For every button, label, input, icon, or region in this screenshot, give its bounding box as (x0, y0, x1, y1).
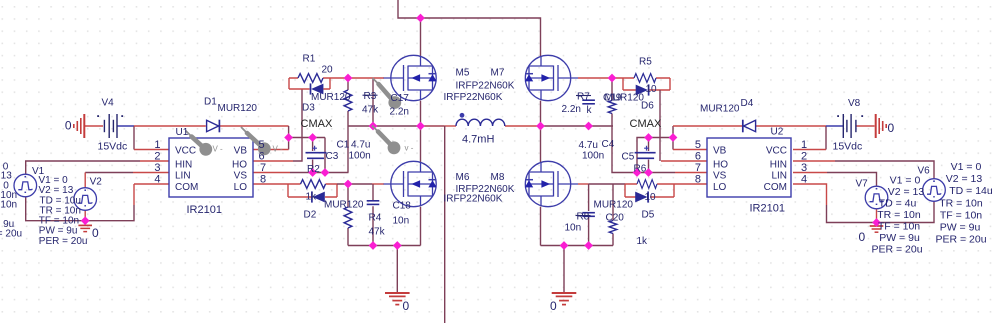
wire node to U1 VCC (133, 126, 135, 150)
node VB left (284, 133, 293, 142)
node bottom ground right (560, 241, 569, 250)
resistor R2 (301, 180, 326, 189)
wire VCC drop right (825, 126, 827, 150)
svg-text:M5: M5 (456, 68, 470, 79)
svg-text:V -: V - (213, 145, 224, 154)
node C5 top (644, 133, 653, 142)
wire R5 D6 bracket right (669, 78, 671, 90)
wire HO chain right (659, 90, 661, 161)
capacitor C3 (306, 146, 327, 159)
wire R1 D3 bracket left (288, 78, 290, 89)
wire U1 pin2 stub (140, 160, 169, 162)
svg-text:4.7u: 4.7u (351, 140, 370, 151)
node rail C17 (369, 122, 378, 131)
node bottom C18 (369, 241, 378, 250)
svg-text:HIN: HIN (770, 160, 787, 171)
wire U2 pin2 stub (793, 160, 835, 162)
op-amp U1 IR2101 box (169, 138, 253, 197)
svg-text:C20: C20 (606, 213, 625, 224)
svg-text:HO: HO (232, 160, 247, 171)
node rail C19 (584, 122, 593, 131)
wire R8 stubs (625, 183, 674, 185)
svg-text:CMAX: CMAX (630, 118, 662, 130)
svg-text:CMAX: CMAX (301, 118, 333, 130)
node VS C3 (308, 168, 317, 177)
svg-text:5: 5 (259, 139, 265, 151)
wire M6 gate row red (372, 183, 384, 185)
svg-text:TR = 10n: TR = 10n (939, 198, 983, 210)
wire right bridge ground drop (563, 246, 565, 293)
svg-text:7: 7 (695, 162, 701, 174)
svg-text:D3: D3 (302, 103, 315, 114)
svg-text:20: 20 (322, 65, 334, 76)
wire R low right chain (612, 184, 614, 246)
ground 0 right of V8 (876, 114, 887, 138)
svg-text:D1: D1 (204, 97, 217, 108)
wire M5 source to rail (420, 101, 422, 126)
node VS corner (321, 168, 330, 177)
svg-text:0: 0 (888, 121, 895, 135)
svg-text:VS: VS (713, 171, 727, 182)
svg-text:U2: U2 (771, 127, 784, 138)
probe V- at mid rail (372, 126, 414, 155)
resistor R1 (298, 74, 323, 83)
svg-text:PW = 9u: PW = 9u (940, 222, 981, 234)
svg-text:0: 0 (550, 299, 557, 313)
node rail M5 (416, 122, 425, 131)
svg-text:MUR120: MUR120 (218, 103, 258, 114)
svg-text:0: 0 (403, 299, 410, 313)
svg-text:1k: 1k (637, 236, 649, 247)
wire U1 pin1 stub (134, 149, 169, 151)
probe V- at U1 VB (241, 127, 283, 155)
wire R5 stubs (623, 77, 670, 79)
svg-text:V1 = 0: V1 = 0 (951, 161, 982, 173)
wire mid rail left (349, 125, 421, 127)
wire R1 stubs (289, 77, 330, 79)
wire C5 top stub (648, 138, 650, 152)
svg-text:10: 10 (645, 192, 657, 203)
svg-text:0: 0 (65, 119, 72, 133)
svg-text:V1 = 0: V1 = 0 (890, 175, 921, 187)
svg-text:= 20u: = 20u (0, 229, 22, 240)
svg-text:MUR120: MUR120 (594, 200, 634, 211)
wire load tap to inductor (445, 125, 456, 127)
svg-text:IRFP22N60K: IRFP22N60K (444, 194, 503, 205)
wire VB drop (288, 126, 290, 150)
diode D5 MUR120 (635, 191, 648, 202)
resistor R7 (608, 101, 616, 114)
wire R8 D5 bracket left (624, 184, 626, 197)
wire R1 D3 bracket right (329, 78, 331, 89)
op-amp U2 IR2101 box (707, 138, 791, 197)
svg-text:R2: R2 (307, 164, 320, 175)
ground 0 right bridge (552, 293, 577, 305)
wire bottom rail right (541, 245, 614, 247)
wire V6 bottom (877, 201, 935, 222)
svg-text:PW = 9u: PW = 9u (39, 226, 78, 237)
svg-text:LIN: LIN (771, 171, 787, 182)
node V7 ground (872, 218, 881, 227)
svg-text:TD = 14u: TD = 14u (949, 185, 993, 197)
wire M6 source (420, 207, 422, 246)
svg-text:0: 0 (859, 230, 866, 244)
svg-text:10n: 10n (393, 216, 410, 227)
wire HIN left run (26, 161, 140, 174)
pulse source V1 (14, 174, 37, 197)
left edge cut parameter column (0, 162, 22, 240)
resistor R8 (637, 180, 657, 189)
wire U2 pin7 stub (675, 172, 707, 174)
inductor 4.7mH (456, 113, 505, 126)
wire VS row right (637, 172, 675, 174)
svg-text:V -: V - (273, 145, 284, 154)
svg-text:U1: U1 (176, 127, 189, 138)
wire U2 pin8 stub (674, 183, 707, 185)
svg-text:2.2n: 2.2n (562, 104, 581, 115)
svg-text:R3: R3 (364, 91, 377, 102)
svg-text:8: 8 (260, 174, 266, 186)
svg-text:VCC: VCC (175, 146, 196, 157)
U2 pin names (713, 146, 787, 194)
svg-text:M6: M6 (456, 172, 470, 183)
wire V8 to node (826, 125, 844, 127)
wire U2 pin6 stub (661, 160, 707, 162)
svg-text:100n: 100n (349, 151, 371, 162)
svg-text:IRFP22N60K: IRFP22N60K (444, 92, 503, 103)
svg-text:PW = 9u: PW = 9u (879, 232, 920, 244)
wire V4 ground stub (85, 125, 103, 127)
svg-text:C3: C3 (326, 151, 339, 162)
svg-text:1: 1 (154, 139, 160, 151)
label R7 (576, 92, 591, 103)
wire M8 drain (540, 126, 542, 162)
capacitor C18 10n (367, 201, 380, 205)
wire R4 chain (347, 184, 349, 246)
svg-text:TD = 4u: TD = 4u (879, 198, 917, 210)
svg-text:C1: C1 (337, 140, 350, 151)
wire R2 stubs (288, 183, 337, 185)
U2 pin numbers right (801, 139, 807, 186)
wire C18 chain (372, 184, 374, 246)
svg-text:VB: VB (234, 146, 248, 157)
U2 pin numbers left (695, 139, 701, 186)
node C3 top (308, 133, 317, 142)
wire U2 pin3 stub (793, 172, 827, 174)
wire D3 row (289, 88, 330, 90)
svg-text:4.7mH: 4.7mH (462, 134, 494, 146)
svg-text:TF = 10n: TF = 10n (940, 210, 982, 222)
wire M7 source to rail (540, 101, 542, 126)
svg-text:C17: C17 (391, 93, 410, 104)
ground 0 left of V4 (74, 114, 85, 138)
capacitor C19 2.2n (582, 100, 595, 104)
svg-text:47k: 47k (362, 105, 379, 116)
resistor R5 (634, 74, 656, 83)
svg-text:TR = 10n: TR = 10n (877, 209, 921, 221)
wire V7 bottom stub (876, 209, 878, 223)
wire COM return left (85, 205, 134, 221)
diode D4 MUR120 (743, 120, 756, 133)
svg-text:D2: D2 (304, 210, 317, 221)
U1 pin numbers left (154, 139, 160, 186)
wire U1 pin3 stub (133, 172, 169, 174)
svg-text:2: 2 (801, 151, 807, 163)
svg-text:V2 = 13: V2 = 13 (946, 173, 983, 185)
svg-text:4: 4 (801, 174, 807, 186)
svg-text:R5: R5 (639, 57, 652, 68)
svg-text:0: 0 (92, 226, 99, 240)
svg-text:2.2n: 2.2n (390, 107, 409, 118)
capacitor C5 (635, 146, 656, 159)
wire R2 D2 bracket right (336, 184, 338, 197)
pulse source V2 (74, 188, 97, 211)
svg-text:10: 10 (646, 84, 658, 95)
wire LIN right run (827, 173, 877, 187)
node gate row R7 (608, 74, 617, 83)
pulse source V7 (865, 186, 888, 209)
svg-text:4: 4 (154, 174, 160, 186)
node gate row R3 (344, 74, 353, 83)
svg-text:R6: R6 (634, 164, 647, 175)
svg-text:D6: D6 (641, 101, 654, 112)
wire mid rail right (541, 125, 614, 127)
transistor M8 IRFP22N60K (525, 161, 578, 206)
wire M8 source (540, 207, 542, 246)
probe V- at U1 VCC (186, 131, 224, 156)
V6 parameter list (935, 161, 992, 246)
label R8 (576, 212, 591, 223)
svg-text:4.7u: 4.7u (579, 140, 598, 151)
ground 0 below V2 (78, 225, 92, 231)
wire rail to load tap (421, 125, 445, 127)
svg-text:5: 5 (695, 139, 701, 151)
svg-text:15Vdc: 15Vdc (98, 141, 128, 153)
svg-text:D5: D5 (642, 210, 655, 221)
svg-text:100n: 100n (582, 151, 604, 162)
svg-text:V7: V7 (856, 179, 869, 190)
svg-text:COM: COM (764, 182, 787, 193)
capacitor C20 10n (582, 213, 595, 217)
svg-text:IRFP22N60K: IRFP22N60K (456, 81, 515, 92)
wire M5 drain (420, 18, 422, 56)
wire D1 cathode to VB drop (220, 125, 289, 127)
wire COM return right (827, 205, 877, 223)
svg-text:R8: R8 (577, 212, 590, 223)
probe V- at M5 gate (373, 78, 402, 109)
svg-text:10n: 10n (0, 200, 17, 211)
svg-text:6: 6 (259, 151, 265, 163)
transistor M5 IRFP22N60K (384, 55, 437, 100)
wire V2 top stub (84, 173, 86, 188)
wire HIN right run (835, 161, 934, 179)
node gate row R4 (344, 180, 353, 189)
wire M5 gate row (330, 77, 384, 79)
wire M6 drain (420, 126, 422, 162)
wire LIN left run (85, 172, 133, 174)
svg-text:8: 8 (695, 174, 701, 186)
U1 pin names (175, 146, 247, 194)
svg-text:MUR120: MUR120 (605, 93, 645, 104)
wire VS row (290, 172, 349, 174)
svg-text:LO: LO (234, 182, 248, 193)
battery V4 (97, 114, 123, 138)
wire top supply drop (398, 0, 541, 56)
wire M7 gate row (578, 77, 623, 79)
node top rail M5 (416, 14, 425, 23)
wire D4 row (673, 125, 826, 127)
wire R8 D5 bracket right (673, 184, 675, 197)
wire M8 gate row red (578, 183, 589, 185)
svg-text:M8: M8 (491, 172, 505, 183)
wire U2 pin5 stub (673, 149, 707, 151)
resistor R4 47k (344, 207, 352, 228)
battery V8 (837, 114, 863, 138)
V7 parameter list (871, 175, 924, 256)
wire U1 pin7 stub (253, 172, 290, 174)
wire C5 bottom stub (648, 160, 650, 173)
wire VB row right (637, 138, 673, 173)
wire load tap to bottom edge (444, 126, 446, 323)
node VS C5 (644, 168, 653, 177)
svg-text:C5: C5 (622, 152, 635, 163)
svg-text:HIN: HIN (175, 160, 192, 171)
wire C3 top stub (312, 138, 314, 152)
wire V1 bottom (26, 197, 85, 221)
svg-text:V2 = 13: V2 = 13 (39, 185, 74, 196)
node bottom ground left (393, 241, 402, 250)
svg-text:PER = 20u: PER = 20u (935, 234, 986, 246)
svg-text:VB: VB (713, 146, 727, 157)
svg-text:10n: 10n (565, 223, 582, 234)
node bottom C20 (584, 241, 593, 250)
svg-text:15Vdc: 15Vdc (833, 141, 863, 153)
wire bottom rail left (348, 245, 421, 247)
svg-text:R7: R7 (577, 92, 590, 103)
node VS right corner (633, 168, 642, 177)
wire R5 D6 bracket left (622, 78, 624, 90)
svg-text:V2: V2 (90, 176, 103, 187)
wire D5 row (625, 196, 674, 198)
diode D1 MUR120 (207, 120, 220, 133)
diode D2 MUR120 (312, 191, 325, 202)
label R3 (363, 91, 378, 102)
svg-text:MUR120: MUR120 (311, 92, 351, 103)
wire VB row (289, 137, 325, 139)
svg-text:D4: D4 (741, 98, 754, 109)
node VB right (669, 133, 678, 142)
wire V4 to node (118, 125, 135, 127)
svg-text:M7: M7 (491, 68, 505, 79)
svg-text:HO: HO (713, 160, 728, 171)
transistor M7 IRFP22N60K (525, 55, 578, 100)
wire VB corner down (324, 138, 326, 173)
resistor R low right (609, 221, 617, 234)
svg-text:LIN: LIN (175, 171, 191, 182)
svg-text:C18: C18 (393, 201, 412, 212)
svg-text:R4: R4 (369, 213, 382, 224)
svg-text:VS: VS (234, 171, 248, 182)
svg-text:7: 7 (260, 162, 266, 174)
svg-text:v -: v - (405, 144, 414, 153)
svg-text:COM: COM (175, 182, 198, 193)
transistor M6 IRFP22N60K (384, 161, 437, 206)
wire VB drop right (672, 126, 674, 150)
svg-text:MUR120: MUR120 (324, 200, 364, 211)
svg-text:3: 3 (154, 162, 160, 174)
ground 0 left bridge (385, 293, 410, 305)
svg-text:1k: 1k (306, 192, 318, 203)
wire U1 pin4 stub (134, 184, 169, 205)
svg-text:V4: V4 (102, 98, 115, 109)
svg-text:V2 = 13: V2 = 13 (888, 186, 925, 198)
svg-text:2: 2 (154, 151, 160, 163)
wire U1 pin8 stub (253, 183, 288, 185)
wire U1 pin6 stub (253, 160, 293, 162)
V1 parameter list (39, 175, 88, 247)
wire V2 bottom stub (84, 210, 86, 220)
svg-text:C4: C4 (602, 139, 615, 150)
svg-text:LO: LO (713, 182, 727, 193)
svg-text:47k: 47k (369, 227, 386, 238)
wire M8 gate row (589, 183, 625, 185)
wire D2 row (288, 196, 337, 198)
wire M6 gate row (337, 183, 372, 185)
diode D6 MUR120 (636, 84, 649, 95)
svg-text:MUR120: MUR120 (700, 104, 740, 115)
wire C3 bottom stub (312, 160, 314, 173)
U1 pin numbers right (259, 139, 267, 186)
diode D3 MUR120 (311, 83, 324, 94)
wire V8 ground stub (856, 125, 875, 127)
svg-text:PER = 20u: PER = 20u (39, 236, 88, 247)
resistor R3 47k (344, 90, 352, 111)
svg-text:VCC: VCC (766, 146, 787, 157)
svg-text:R1: R1 (303, 54, 316, 65)
svg-text:IR2101: IR2101 (750, 203, 785, 215)
wire node to D1 anode (134, 125, 206, 127)
wire U1 pin5 stub (253, 149, 289, 151)
svg-text:IR2101: IR2101 (187, 204, 222, 216)
wire R2 D2 bracket left (287, 184, 289, 197)
svg-text:6: 6 (695, 151, 701, 163)
wire R7 chain (612, 78, 637, 173)
wire left bridge ground drop (396, 246, 398, 293)
wire U2 pin4 stub (793, 184, 827, 205)
ground 0 below V7 (870, 226, 884, 232)
wire C17 chain (372, 78, 374, 126)
wire U2 pin1 stub (793, 149, 826, 151)
svg-text:V8: V8 (848, 98, 861, 109)
svg-text:TF = 10n: TF = 10n (878, 221, 920, 233)
wire HO chain (293, 89, 302, 161)
wire C20 chain (588, 184, 590, 246)
pulse source V6 (923, 179, 946, 202)
node rail M7 (536, 122, 545, 131)
wire R3 chain (347, 78, 349, 173)
node V2 ground (81, 216, 90, 225)
svg-text:PER = 20u: PER = 20u (871, 244, 922, 256)
wire D6 row (623, 89, 670, 91)
svg-text:3: 3 (801, 162, 807, 174)
svg-text:1: 1 (801, 139, 807, 151)
wire inductor to rail (505, 125, 541, 127)
